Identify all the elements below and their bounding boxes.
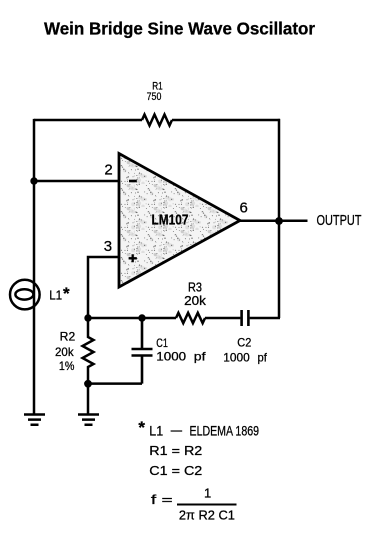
svg-text:2π R2 C1: 2π R2 C1 xyxy=(179,507,235,522)
svg-text:ELDEMA 1869: ELDEMA 1869 xyxy=(190,423,260,439)
node at inverting input xyxy=(30,177,37,184)
wire top feedback right segment xyxy=(172,119,280,122)
svg-text:1000: 1000 xyxy=(223,350,250,364)
wire mid horizontal xyxy=(88,317,176,320)
svg-text:—: — xyxy=(171,422,182,438)
minus sign xyxy=(129,180,137,183)
svg-text:L1: L1 xyxy=(49,288,62,303)
wire pin 3 xyxy=(88,257,120,318)
wire top feedback left segment xyxy=(34,119,142,122)
svg-text:pf: pf xyxy=(258,350,268,364)
svg-text:C2: C2 xyxy=(237,336,251,350)
wire pin 2 xyxy=(34,180,120,183)
svg-text:2: 2 xyxy=(104,162,112,179)
resistor R3 xyxy=(176,313,205,323)
svg-text:20k: 20k xyxy=(55,345,75,359)
resistor R1 xyxy=(142,115,172,126)
formula fraction bar xyxy=(177,504,237,506)
svg-text:f =: f = xyxy=(151,492,173,507)
node C1 top junction xyxy=(138,314,145,321)
svg-text:L1: L1 xyxy=(149,423,163,439)
svg-text:LM107: LM107 xyxy=(152,211,189,228)
svg-text:OUTPUT: OUTPUT xyxy=(317,212,362,229)
svg-text:*: * xyxy=(63,284,70,303)
svg-text:3: 3 xyxy=(104,238,112,255)
capacitor C1 xyxy=(132,318,153,384)
node pin3 junction xyxy=(84,314,91,321)
svg-text:C1 = C2: C1 = C2 xyxy=(149,463,202,478)
plus sign xyxy=(129,254,137,262)
lamp L1 xyxy=(10,280,40,310)
svg-text:C1: C1 xyxy=(156,336,168,350)
svg-text:1000: 1000 xyxy=(156,350,186,364)
wire output xyxy=(240,220,308,223)
ground under R2 xyxy=(78,415,99,425)
svg-text:1%: 1% xyxy=(59,359,75,373)
svg-text:750: 750 xyxy=(147,91,162,103)
wire to ground under R2 xyxy=(87,384,90,415)
resistor R2 xyxy=(83,318,94,384)
svg-text:Wein Bridge Sine Wave Oscillat: Wein Bridge Sine Wave Oscillator xyxy=(44,18,315,38)
wire bottom between R2 and C1 xyxy=(88,382,142,385)
svg-text:R2: R2 xyxy=(60,330,76,344)
svg-text:20k: 20k xyxy=(184,293,206,308)
svg-text:R1 = R2: R1 = R2 xyxy=(149,443,202,458)
svg-text:6: 6 xyxy=(240,200,248,217)
wire right rail xyxy=(278,119,281,318)
svg-text:1: 1 xyxy=(204,486,211,501)
wire left rail xyxy=(33,119,36,415)
node output xyxy=(275,217,283,225)
op-amp U1 LM107 xyxy=(119,154,240,288)
wire R3 to C2 xyxy=(205,317,240,320)
capacitor C2 xyxy=(242,310,249,326)
ground under lamp xyxy=(24,415,45,425)
svg-text:pf: pf xyxy=(194,350,206,364)
svg-text:*: * xyxy=(138,418,145,437)
wire C2 to rail xyxy=(250,317,280,320)
node R2 bottom junction xyxy=(84,380,92,388)
